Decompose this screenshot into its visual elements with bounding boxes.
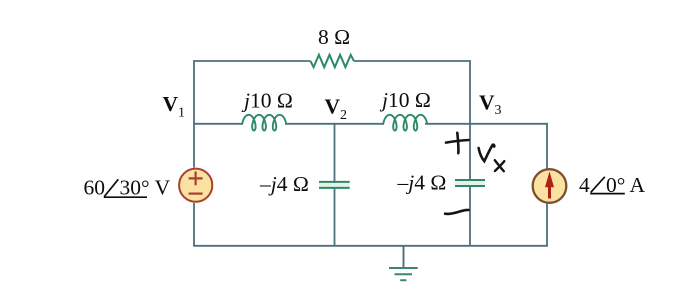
voltage source Vs 60/30 V [179, 169, 212, 202]
svg-text:60: 60 [84, 176, 106, 200]
voltage source value label 60/30 V [84, 176, 171, 200]
annotation: handwritten plus sign of Vx [446, 133, 469, 153]
svg-text:–j4 Ω: –j4 Ω [259, 172, 309, 196]
wire: right vertical below current source [546, 204, 548, 246]
capacitor Cx (on V3 branch) plates [455, 180, 485, 186]
wire: bottom horizontal [193, 245, 548, 247]
wire: left vertical from top corner down to voltage source top [193, 61, 195, 168]
ground [389, 246, 418, 280]
svg-text:30° V: 30° V [120, 176, 171, 200]
current source value label 4/0 A [579, 173, 646, 197]
capacitor Cx (on V3 branch): dielectric gap fill [455, 181, 485, 186]
svg-text:V3: V3 [479, 91, 502, 119]
svg-text:–j4 Ω: –j4 Ω [397, 171, 447, 195]
svg-text:j10 Ω: j10 Ω [241, 89, 293, 113]
wire: middle horizontal second inductor to node V3 and current source [425, 123, 548, 125]
capacitor -j4 ohm (on V2 branch): dielectric gap fill [319, 183, 350, 188]
wire: middle horizontal V1 to first inductor [193, 123, 243, 125]
wire: V2 vertical branch through capacitor [334, 123, 336, 246]
svg-text:8 Ω: 8 Ω [318, 25, 350, 49]
capacitor -j4 ohm (on V2 branch) plates [319, 182, 350, 188]
wire: V3 vertical branch through capacitor [469, 123, 471, 246]
svg-text:V2: V2 [325, 95, 348, 124]
svg-text:j10 Ω: j10 Ω [379, 88, 431, 112]
wire: left vertical upper (node V1 to top-left corner) [193, 203, 195, 246]
inductor j10 ohm (right) [383, 115, 427, 131]
annotation: handwritten Vx label [479, 145, 505, 172]
wire: top horizontal left segment (to resistor) [193, 60, 310, 62]
svg-text:4: 4 [579, 173, 590, 197]
svg-text:V1: V1 [163, 92, 186, 121]
wire: right vertical of 8-ohm branch down to node V3 [469, 61, 471, 125]
resistor 8 ohm [310, 55, 353, 67]
wire: middle horizontal between inductors (through node V2) [285, 123, 384, 125]
current source 4/0 A [533, 169, 567, 203]
wire: top horizontal right segment (resistor to top-right corner) [354, 60, 471, 62]
annotation: handwritten minus sign of Vx [445, 210, 468, 214]
wire: right vertical above current source [546, 123, 548, 169]
inductor j10 ohm (left) [242, 115, 286, 131]
